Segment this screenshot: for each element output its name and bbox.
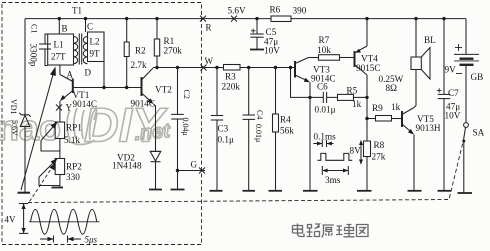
- svg-text:0.04μ: 0.04μ: [181, 118, 190, 136]
- svg-text:330: 330: [66, 172, 80, 182]
- wire: W line from VT2 collector to R3: [153, 67, 224, 69]
- measurement: 3ms period: [322, 166, 348, 185]
- resistor R7 10k: [309, 35, 355, 60]
- svg-text:VT2: VT2: [155, 85, 172, 95]
- svg-text:R7: R7: [319, 35, 330, 45]
- wire: VT2 emitter down to VD2: [154, 104, 156, 151]
- measurement: 0.1ms pulse width: [313, 132, 336, 148]
- capacitor C6 0.01u: [310, 82, 338, 115]
- transistor VT1 9014C: [60, 75, 97, 110]
- waveform: output pulses: [318, 153, 353, 160]
- wire: VT5 emitter down to ground: [413, 135, 415, 191]
- svg-text:5μs: 5μs: [85, 235, 98, 245]
- wire: VT1 base to VT2 base: [74, 87, 141, 89]
- capacitor C2 0.04u: [171, 66, 191, 190]
- svg-text:R5: R5: [347, 86, 358, 96]
- node G wire and x mark: [176, 160, 205, 174]
- capacitor C7 47u 10V: [437, 17, 461, 191]
- measurement: 4V amplitude annotation: [5, 204, 29, 234]
- speaker BL 0.25W 8ohm: [379, 17, 437, 93]
- svg-text:3ms: 3ms: [325, 175, 341, 185]
- capacitor C4 0.01u: [243, 66, 265, 191]
- svg-text:C6: C6: [317, 82, 328, 92]
- svg-text:R: R: [206, 23, 212, 33]
- inductor L1 27T (boxed label): [48, 34, 78, 65]
- svg-text:C5: C5: [266, 27, 277, 37]
- node Y (x mark): [56, 103, 73, 113]
- ground (VD2): [149, 189, 162, 191]
- svg-text:R8: R8: [374, 140, 385, 150]
- svg-text:VD1: VD1: [9, 99, 18, 115]
- svg-text:10k: 10k: [317, 45, 331, 55]
- svg-text:R6: R6: [270, 5, 281, 15]
- diode VD2 1N4148: [112, 151, 161, 189]
- transistor VT2 9014C: [131, 68, 173, 109]
- svg-text:8V: 8V: [350, 146, 362, 156]
- dashed mechanical link line to switch SA: [28, 142, 463, 203]
- svg-text:56k: 56k: [280, 126, 294, 136]
- svg-text:1N4148: 1N4148: [112, 161, 142, 171]
- svg-text:0.01μ: 0.01μ: [254, 124, 263, 142]
- svg-text:9014C: 9014C: [73, 99, 98, 109]
- svg-text:W: W: [205, 56, 214, 66]
- svg-text:27k: 27k: [372, 152, 386, 162]
- svg-text:D: D: [85, 68, 92, 78]
- measurement: 5us period arrows: [40, 235, 98, 245]
- svg-text:10V: 10V: [445, 111, 461, 121]
- wire: A node down to VT1 collector: [59, 65, 61, 75]
- svg-text:GB: GB: [471, 72, 484, 82]
- svg-text:L1: L1: [54, 40, 64, 50]
- potentiometer RP1 5.1k: [41, 122, 82, 151]
- wire: B drop from rail to L1: [58, 17, 68, 34]
- svg-text:0.1μ: 0.1μ: [218, 135, 234, 145]
- resistor R8 27k: [364, 140, 386, 191]
- svg-text:C3: C3: [218, 124, 229, 134]
- ground (VT5 emitter): [408, 190, 422, 192]
- svg-text:5.6V: 5.6V: [228, 6, 246, 16]
- svg-text:G: G: [191, 160, 198, 170]
- svg-text:C4: C4: [255, 110, 264, 119]
- svg-text:8Ω: 8Ω: [386, 83, 398, 93]
- ground (SA): [458, 192, 473, 194]
- svg-text:R4: R4: [280, 115, 291, 125]
- svg-text:9T: 9T: [90, 49, 101, 59]
- svg-text:B: B: [62, 24, 68, 34]
- wire: +V top rail (right of R6): [291, 18, 466, 20]
- svg-text:Y: Y: [66, 103, 73, 113]
- ground (VT3 emitter): [303, 190, 318, 192]
- svg-text:1k: 1k: [352, 99, 362, 109]
- svg-text:VT4: VT4: [361, 54, 378, 64]
- svg-text:220k: 220k: [222, 82, 241, 92]
- wire: left rail down from top corner: [24, 19, 26, 115]
- wire: L2 box right edge extended down to base wire: [102, 33, 105, 89]
- svg-text:SA: SA: [473, 128, 485, 138]
- svg-text:R2: R2: [135, 46, 146, 56]
- svg-text:R9: R9: [372, 103, 383, 113]
- svg-text:4V: 4V: [5, 215, 17, 225]
- resistor R4 56k: [273, 66, 295, 191]
- wire: VT1 emitter down through node Y: [59, 101, 61, 122]
- zener diode VD1 5.6V: [9, 99, 31, 193]
- wire: VT4 emitter up to rail: [365, 17, 368, 46]
- svg-text:5.1k: 5.1k: [64, 135, 80, 145]
- ground (C3): [210, 190, 223, 192]
- resistor R9 1k: [367, 102, 402, 121]
- ground (C7): [438, 190, 452, 192]
- svg-text:9015C: 9015C: [356, 63, 381, 73]
- resistor R6 390: [270, 5, 307, 22]
- svg-text:3300p: 3300p: [29, 44, 39, 67]
- measurement: 8V across R8: [350, 140, 364, 165]
- wire: RP2 bottom to terminal bar: [59, 175, 61, 188]
- switch SA: [462, 123, 484, 193]
- wire: VT5 collector up to speaker: [414, 70, 416, 108]
- ground (C5): [250, 49, 264, 51]
- wire: C drop from rail to L2: [84, 17, 93, 32]
- wire: VT4 collector column down to R8: [365, 75, 368, 141]
- node: 5.6V test point x mark: [228, 6, 246, 22]
- watermark: [0, 100, 172, 153]
- svg-text:10V: 10V: [264, 46, 280, 56]
- terminal bar below RP2: [52, 187, 64, 189]
- ground (R8): [357, 190, 372, 192]
- svg-text:RP1: RP1: [66, 123, 82, 133]
- svg-text:0.01μ: 0.01μ: [315, 105, 336, 115]
- ground (C2): [171, 189, 185, 191]
- transistor VT3 9014C: [295, 58, 336, 84]
- svg-text:2.7k: 2.7k: [131, 60, 147, 70]
- probe arrow (antenna): [21, 67, 56, 191]
- svg-text:BL: BL: [424, 35, 436, 45]
- dashed link arrow to RP2: [30, 163, 56, 202]
- svg-text:1k: 1k: [391, 102, 401, 112]
- svg-text:A: A: [67, 70, 74, 80]
- transistor VT5 9013H: [402, 108, 441, 135]
- inductor L2 9T (boxed label): [83, 32, 104, 64]
- svg-text:RP2: RP2: [66, 162, 82, 172]
- svg-text:L2: L2: [90, 37, 100, 47]
- transformer core: [79, 34, 81, 65]
- waveform: 5us sine wave: [29, 209, 100, 234]
- title: circuit schematic (Chinese): [293, 224, 369, 238]
- dashed probe enclosure box: [2, 3, 202, 245]
- svg-text:.net: .net: [134, 120, 173, 145]
- svg-text:9013H: 9013H: [416, 123, 441, 133]
- transistor VT4 9015C: [355, 46, 381, 75]
- svg-text:T1: T1: [72, 6, 82, 16]
- svg-text:0.1ms: 0.1ms: [314, 132, 337, 142]
- svg-text:R1: R1: [164, 36, 175, 46]
- wire: RP1 to RP2: [59, 139, 61, 159]
- resistor R1 270k: [154, 17, 182, 69]
- resistor R3 220k: [222, 65, 295, 92]
- potentiometer RP2 330: [39, 158, 82, 185]
- wire: VT3 emitter column down to ground: [308, 82, 311, 191]
- node R (x mark): [200, 16, 212, 33]
- svg-text:5.6V: 5.6V: [10, 120, 19, 136]
- svg-text:9V: 9V: [445, 65, 457, 75]
- capacitor C5 47u 10V: [250, 17, 280, 56]
- capacitor C3 0.1u: [211, 66, 234, 191]
- svg-text:9014C: 9014C: [131, 99, 156, 109]
- ground (R4): [269, 190, 283, 192]
- svg-text:270k: 270k: [164, 46, 183, 56]
- resistor R5 1k: [338, 86, 368, 110]
- svg-text:390: 390: [293, 6, 307, 16]
- ground (C4): [243, 190, 256, 192]
- resistor R2 2.7k: [124, 17, 147, 89]
- probe tip bar: [18, 192, 31, 194]
- node W (x mark): [201, 56, 214, 71]
- svg-text:C7: C7: [448, 88, 459, 98]
- svg-text:27T: 27T: [51, 52, 66, 62]
- wire: emitter feedback loop to W line: [289, 66, 310, 98]
- svg-text:C1: C1: [30, 24, 39, 33]
- svg-text:R3: R3: [225, 72, 236, 82]
- wire: +V top rail (left of R6): [25, 18, 271, 20]
- battery GB 9V: [445, 19, 484, 123]
- svg-text:C: C: [87, 22, 93, 32]
- capacitor C1 3300p: [29, 24, 52, 67]
- svg-text:C2: C2: [182, 90, 191, 99]
